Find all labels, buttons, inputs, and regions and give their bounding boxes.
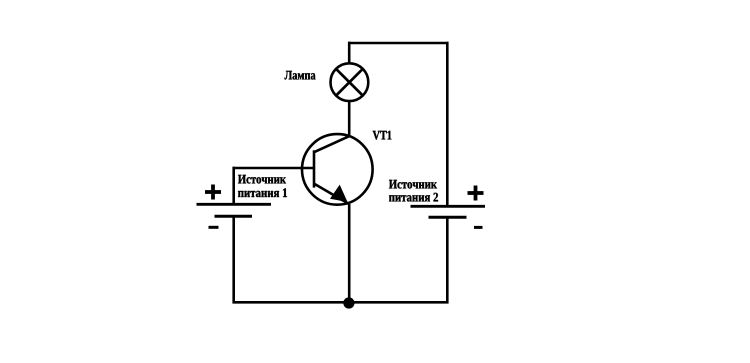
battery GB1 negative plate xyxy=(215,215,253,218)
wire right lower vertical xyxy=(446,217,449,303)
wire top horizontal xyxy=(348,42,449,45)
wire left upper vertical xyxy=(232,167,235,204)
transistor emitter diagonal xyxy=(314,184,349,204)
wire right upper vertical xyxy=(446,42,449,206)
battery GB2 minus sign xyxy=(474,226,483,229)
transistor base bar xyxy=(313,150,316,187)
transistor emitter arrowhead xyxy=(330,185,348,202)
label VT1 xyxy=(373,131,392,140)
battery GB1 plus sign xyxy=(205,190,221,194)
battery GB2 positive plate xyxy=(411,205,486,208)
wire emitter vertical xyxy=(348,204,351,302)
battery GB1 minus sign xyxy=(209,226,219,229)
wire base horizontal xyxy=(233,167,314,170)
lamp X stroke 1 xyxy=(336,69,363,96)
lamp HL1 circle xyxy=(331,63,369,101)
label Лампа xyxy=(285,71,316,80)
wire left lower vertical xyxy=(232,216,235,303)
wire lamp top vertical xyxy=(348,42,351,63)
wire lamp to transistor (collector lead) xyxy=(348,101,351,137)
wire bottom horizontal xyxy=(233,301,449,304)
transistor VT1 circle xyxy=(302,134,373,205)
battery GB1 positive plate xyxy=(197,203,272,206)
battery GB2 negative plate xyxy=(429,216,467,219)
lamp X stroke 2 xyxy=(336,69,363,96)
junction node dot xyxy=(343,297,354,308)
transistor collector diagonal xyxy=(314,136,350,152)
label Источник питания 1 xyxy=(238,175,286,184)
label Источник питания 2 xyxy=(389,180,437,189)
battery GB2 plus sign xyxy=(468,191,484,195)
